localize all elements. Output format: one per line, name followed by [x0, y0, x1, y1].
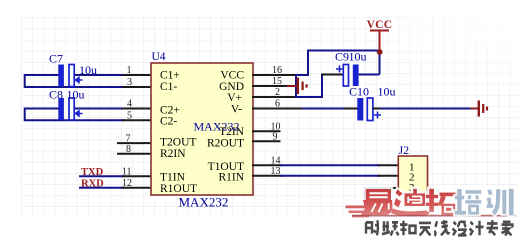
svg-text:12: 12: [122, 178, 132, 189]
svg-text:16: 16: [272, 65, 282, 76]
svg-text:VCC: VCC: [367, 19, 393, 31]
svg-text:VCC: VCC: [220, 70, 244, 82]
svg-text:MAX232: MAX232: [179, 195, 229, 210]
watermark logo red strokes: [346, 189, 458, 218]
wire pin5 stub: [123, 119, 151, 121]
svg-text:C2-: C2-: [160, 116, 177, 128]
wire TXD pin11: [80, 175, 123, 177]
svg-text:4: 4: [127, 99, 132, 110]
svg-text:R2OUT: R2OUT: [207, 138, 244, 150]
svg-text:10u: 10u: [67, 88, 85, 102]
svg-text:10u: 10u: [349, 50, 367, 64]
svg-text:11: 11: [122, 167, 132, 178]
svg-text:8: 8: [126, 144, 131, 155]
svg-text:V-: V-: [231, 104, 242, 116]
svg-text:6: 6: [275, 99, 280, 110]
svg-text:13: 13: [271, 166, 281, 177]
ground at pin15: [298, 78, 307, 95]
wire C10 to right ground: [373, 108, 477, 110]
svg-text:2: 2: [275, 87, 280, 98]
U4 left pin numbers: [122, 65, 132, 189]
pin 16 wire to VCC rail: [253, 74, 296, 76]
ground right: [479, 101, 487, 117]
U4 left pin names: [160, 70, 197, 196]
svg-text:C10: C10: [349, 85, 369, 99]
watermark logo underline: [352, 215, 516, 217]
svg-text:C1-: C1-: [160, 81, 177, 93]
power VCC: [367, 19, 393, 75]
svg-text:C2+: C2+: [160, 104, 180, 116]
junction: [377, 49, 383, 55]
wire pin3 stub: [123, 86, 151, 88]
svg-text:C8: C8: [49, 88, 63, 102]
schematic sheet grid: [21, 17, 518, 215]
wire pin4 loop left: [46, 108, 59, 110]
svg-text:J2: J2: [399, 143, 410, 157]
pin 7 stub: [118, 142, 151, 144]
pin 6 wire: [253, 108, 303, 110]
svg-text:U4: U4: [152, 51, 166, 63]
svg-text:3: 3: [127, 77, 132, 88]
svg-text:RXD: RXD: [81, 178, 104, 189]
svg-text:1: 1: [127, 65, 132, 76]
svg-text:9: 9: [273, 131, 278, 142]
svg-text:C7: C7: [49, 52, 63, 66]
svg-text:V+: V+: [227, 92, 242, 104]
wire pin1 right: [75, 74, 124, 76]
pin 14 wire to J2: [253, 164, 281, 166]
watermark white halo: [346, 189, 458, 218]
capacitor C10: [349, 85, 396, 121]
svg-text:T2IN: T2IN: [219, 126, 245, 138]
pin 15 wire to ground: [253, 85, 288, 87]
capacitor C8: [49, 88, 85, 121]
svg-text:R1IN: R1IN: [218, 172, 244, 184]
svg-text:10u: 10u: [378, 85, 396, 99]
svg-text:T1IN: T1IN: [160, 172, 186, 184]
wire pin1 loop left: [46, 74, 59, 76]
right side pins: [253, 51, 398, 176]
svg-text:10u: 10u: [79, 63, 97, 77]
connector J2: [398, 143, 427, 194]
svg-text:R1OUT: R1OUT: [160, 183, 197, 195]
svg-text:5: 5: [127, 111, 132, 122]
wire J2 pin3 to ground: [380, 187, 398, 189]
wire short vertical pin16-pin2: [295, 75, 297, 97]
pin 9 stub: [253, 140, 280, 142]
pin 8 stub: [118, 153, 151, 155]
capacitor C7: [49, 52, 97, 87]
wire pin4 right: [75, 108, 124, 110]
svg-text:C9: C9: [335, 50, 349, 64]
pin 13 wire to J2: [253, 175, 281, 177]
U4 right pin names: [207, 70, 245, 184]
svg-text:TXD: TXD: [81, 167, 104, 178]
svg-text:R2IN: R2IN: [160, 148, 186, 160]
wire RXD pin12: [80, 187, 123, 189]
svg-text:C1+: C1+: [160, 70, 180, 82]
svg-text:7: 7: [126, 133, 131, 144]
pin 2 wire to C9: [253, 96, 296, 98]
capacitor C9: [335, 50, 380, 87]
svg-text:14: 14: [271, 155, 281, 166]
watermark tagline 射频和天线设计专家: [366, 220, 513, 236]
IC U4 MAX232 body: [151, 51, 253, 210]
svg-text:T2OUT: T2OUT: [160, 137, 196, 149]
svg-text:15: 15: [272, 76, 282, 87]
watermark 培训 white strokes: [455, 189, 514, 216]
right pin numbers: [271, 65, 283, 177]
pin 10 stub: [253, 130, 280, 132]
ground below J2: [349, 198, 382, 216]
